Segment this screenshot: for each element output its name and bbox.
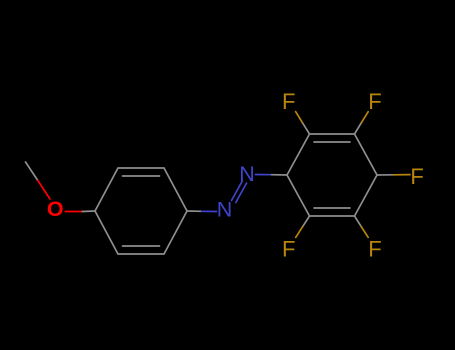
benzene ring B (pentafluorophenyl) — [287, 134, 377, 216]
svg-text:O: O — [47, 197, 64, 221]
F stub top-right gray half — [355, 123, 362, 134]
F stub bottom-right olive half — [361, 227, 368, 238]
benzene ring A (methoxyphenyl) — [95, 168, 187, 254]
methyl C-O bond (red half) — [38, 181, 50, 200]
svg-text:F: F — [282, 236, 295, 261]
F stub right olive half — [394, 174, 411, 176]
svg-text:N: N — [217, 198, 233, 222]
N2 to ring B bond blue half — [256, 174, 272, 176]
svg-text:F: F — [368, 89, 381, 114]
ring A inner double bond bottom — [123, 245, 160, 247]
azo N=N double bond line 1 — [232, 181, 243, 201]
N2 to ring B bond gray half — [272, 174, 288, 176]
F stub right gray half — [377, 174, 394, 176]
svg-text:F: F — [410, 164, 423, 189]
O-ring bond gray half — [82, 210, 95, 213]
ring B inner double bond bottom — [314, 207, 350, 209]
F stub top-left gray half — [303, 123, 310, 134]
svg-text:F: F — [282, 89, 295, 114]
azo N=N double bond line 2 — [236, 183, 247, 203]
ring A to N1 bond blue half — [202, 210, 217, 212]
svg-text:N: N — [239, 162, 255, 186]
F stub bottom-right gray half — [355, 216, 362, 227]
F stub bottom-left olive half — [296, 227, 303, 238]
O-ring bond red half — [65, 211, 82, 213]
F stub top-left olive half — [296, 112, 303, 123]
methyl C-O bond (gray half) — [26, 162, 38, 181]
ring B inner double bond top — [314, 141, 350, 143]
F stub top-right olive half — [361, 112, 368, 123]
ring A inner double bond top — [123, 175, 160, 177]
ring A to N1 bond gray half — [187, 210, 202, 212]
F stub bottom-left gray half — [303, 216, 310, 227]
svg-text:F: F — [368, 236, 381, 261]
